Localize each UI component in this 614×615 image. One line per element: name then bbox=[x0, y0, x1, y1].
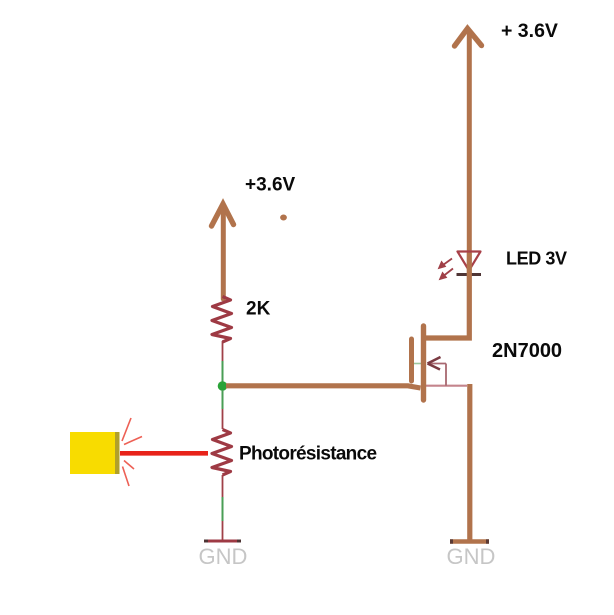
light source dark edge bbox=[115, 432, 120, 474]
body arrow head bbox=[428, 357, 441, 364]
ground bar left bbox=[204, 540, 241, 543]
wire node to photoresistor (green segment) bbox=[222, 390, 224, 409]
LED D1 bbox=[439, 252, 482, 280]
wire to ground (dark red segment) bbox=[222, 521, 224, 541]
light ray upper steep bbox=[122, 418, 131, 441]
LED emission arrow 1 bbox=[439, 259, 453, 269]
ground bar right bbox=[450, 539, 489, 543]
wire LED to drain (brown, vertical then left) bbox=[425, 253, 469, 338]
light ray lower shallow bbox=[124, 461, 134, 470]
thin source line bbox=[426, 385, 468, 387]
photoresistor R2 bbox=[212, 430, 232, 476]
svg-text:GND: GND bbox=[199, 544, 248, 569]
svg-text:LED 3V: LED 3V bbox=[506, 249, 567, 269]
power supply arrow +3.6V left bbox=[212, 204, 234, 299]
wire to photoresistor (dark red segment) bbox=[222, 409, 224, 429]
svg-text:2K: 2K bbox=[246, 299, 271, 320]
svg-text:GND: GND bbox=[447, 544, 496, 569]
stray paint dot bbox=[280, 215, 287, 221]
resistor R1 2K bbox=[212, 297, 232, 343]
wire supply to LED (brown vertical) bbox=[467, 31, 472, 253]
wire resistor to node (dark red segment) bbox=[222, 341, 224, 361]
thin vertical to source bbox=[445, 364, 447, 386]
svg-text:Photorésistance: Photorésistance bbox=[239, 444, 376, 465]
power supply arrow +3.6V right bbox=[455, 29, 482, 47]
thin gate stub (green, original schematic) bbox=[414, 363, 421, 365]
source wire to ground (brown vertical) bbox=[467, 384, 472, 541]
light beam bbox=[120, 451, 208, 456]
svg-text:+ 3.6V: + 3.6V bbox=[501, 20, 558, 42]
gate plate (brown) bbox=[409, 339, 414, 381]
gate wire horizontal (brown) bbox=[226, 386, 421, 388]
wire (green segment) bbox=[222, 497, 224, 521]
node junction dot bbox=[218, 381, 228, 391]
LED emission arrow 2 bbox=[440, 269, 454, 280]
channel bar (brown) bbox=[421, 326, 426, 400]
body arrow line bbox=[428, 363, 446, 365]
transistor Q1 2N7000 bbox=[412, 326, 468, 400]
light ray lower steep bbox=[123, 467, 130, 487]
light ray upper shallow bbox=[124, 437, 142, 445]
light source yellow square bbox=[70, 432, 115, 474]
wire below photoresistor (dark red segment) bbox=[222, 475, 224, 497]
svg-text:2N7000: 2N7000 bbox=[492, 340, 562, 362]
wire to node (green segment) bbox=[222, 361, 224, 383]
svg-text:+3.6V: +3.6V bbox=[245, 175, 296, 196]
